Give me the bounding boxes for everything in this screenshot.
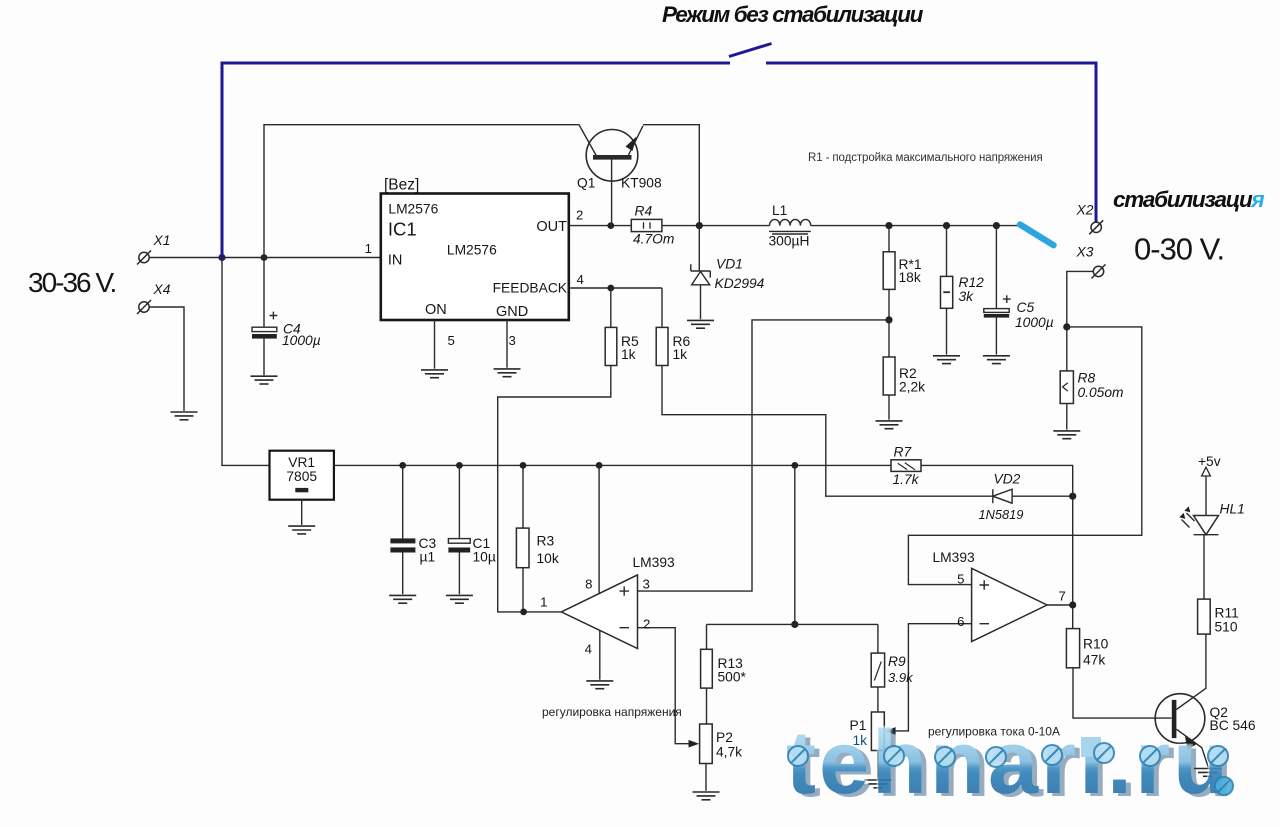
op-amp U1B LM393 (right) <box>972 568 1047 641</box>
wire: IC1 pin3 GND to ground <box>506 320 508 368</box>
wire: blue bypass line from input node up and across to X2 <box>222 44 1096 257</box>
watermark tehnari.ru <box>786 713 1236 816</box>
ground (X4) <box>171 412 198 420</box>
label VD2 <box>979 472 1024 523</box>
resistor R11 <box>1198 535 1211 634</box>
label IC1 contents <box>384 177 568 321</box>
diode VD1 (zener to ground) <box>691 226 711 320</box>
node: R12 top <box>943 222 950 229</box>
svg-text:4.7Om: 4.7Om <box>633 232 674 247</box>
ground (C1) <box>446 595 473 603</box>
svg-text:5: 5 <box>448 333 455 348</box>
label VR1 <box>286 455 317 484</box>
label R6 <box>673 334 691 362</box>
svg-text:2: 2 <box>576 208 583 223</box>
svg-text:300µH: 300µH <box>769 234 810 249</box>
label left op-amp pins <box>540 577 650 657</box>
svg-text:8: 8 <box>585 577 592 592</box>
svg-text:4: 4 <box>577 272 584 287</box>
ground (C3) <box>389 595 416 603</box>
wire: pin4 to ground <box>599 630 601 680</box>
svg-text:регулировка напряжения: регулировка напряжения <box>542 705 682 719</box>
wire: IC1 pin5 ON to ground <box>434 320 436 369</box>
svg-text:Режим без стабилизации: Режим без стабилизации <box>662 2 924 27</box>
resistor R6 <box>656 288 668 366</box>
svg-text:FEEDBACK: FEEDBACK <box>493 281 568 296</box>
terminal X2 <box>1089 220 1103 234</box>
resistor R12 <box>941 226 953 355</box>
ground (VD1) <box>687 320 714 328</box>
node: R8 top junction <box>1063 323 1070 330</box>
op-amp U1A LM393 (left, mirrored) <box>561 575 637 649</box>
svg-text:0-30 V.: 0-30 V. <box>1134 232 1224 267</box>
wire: R6 bottom to VD2 line <box>662 366 993 497</box>
svg-text:500*: 500* <box>718 670 747 685</box>
svg-text:X1: X1 <box>153 233 171 248</box>
label R10 <box>1083 637 1109 668</box>
svg-text:R4: R4 <box>635 204 653 219</box>
wire: sense node to right comparator pin5 <box>908 327 1141 585</box>
svg-text:R12: R12 <box>959 275 985 290</box>
svg-text:VD1: VD1 <box>716 257 743 272</box>
ground (P1) <box>864 780 891 788</box>
svg-text:3: 3 <box>509 333 516 348</box>
op-amp IC1 LM2576 box <box>381 194 569 321</box>
wire: pin6 to P1 wiper <box>895 624 972 731</box>
voltage regulator VR1 7805 <box>270 451 334 525</box>
svg-text:R11: R11 <box>1215 606 1239 621</box>
label P2 <box>716 730 742 760</box>
svg-text:1: 1 <box>365 241 372 256</box>
svg-text:OUT: OUT <box>536 219 567 235</box>
svg-text:KT908: KT908 <box>621 176 662 191</box>
capacitor C1 <box>448 465 470 594</box>
node: R3 top <box>520 462 527 469</box>
svg-text:30-36 V.: 30-36 V. <box>28 267 115 298</box>
label Q2 <box>1210 705 1256 733</box>
node: pin7 output junction <box>1069 601 1076 608</box>
ground (U1A pin4) <box>586 681 613 689</box>
power symbol +5v <box>1202 467 1211 476</box>
ground (Q2 emitter) <box>1194 769 1221 777</box>
arrow: P1 wiper <box>885 727 896 735</box>
resistor R4 <box>631 219 662 231</box>
resistor R2 <box>883 320 895 420</box>
svg-text:5: 5 <box>957 572 964 587</box>
svg-text:R8: R8 <box>1078 371 1096 386</box>
node: junction at x=264 input rail <box>261 254 268 261</box>
svg-text:Q1: Q1 <box>577 176 595 191</box>
ground (R2) <box>876 421 903 429</box>
LED HL1 <box>1179 476 1218 535</box>
ground (P2) <box>693 792 720 800</box>
node: C3 top <box>399 462 406 469</box>
svg-text:R9: R9 <box>888 654 906 669</box>
label P1 <box>850 718 868 748</box>
ground (IC1 ON) <box>421 370 448 378</box>
wire: R4 to L1 <box>662 225 770 227</box>
switch SA (blue blade) <box>729 44 772 57</box>
label R13 <box>718 656 747 685</box>
resistor R8 <box>1060 327 1073 430</box>
svg-text:1: 1 <box>540 595 547 610</box>
svg-text:VD2: VD2 <box>994 472 1021 487</box>
wire: supply tap down to pots rail <box>794 465 796 624</box>
svg-text:KD2994: KD2994 <box>715 276 765 291</box>
terminal X3 <box>1092 264 1106 278</box>
resistor R7 <box>891 460 921 472</box>
wire: pin8 supply stem <box>598 465 600 593</box>
node: R*1 top <box>885 222 892 229</box>
svg-text:18k: 18k <box>899 270 921 285</box>
svg-text:LM2576: LM2576 <box>388 202 438 217</box>
ground (VR1) <box>288 526 315 534</box>
capacitor C5 <box>984 226 1011 355</box>
wire: Q1 collector to input rail <box>264 125 597 258</box>
label IC1 pin numbers <box>365 208 584 349</box>
svg-text:R3: R3 <box>537 534 555 549</box>
svg-text:GND: GND <box>496 304 528 320</box>
svg-text:LM2576: LM2576 <box>447 243 497 258</box>
potentiometer P1 <box>871 712 884 779</box>
svg-text:10k: 10k <box>537 551 559 566</box>
wire: X3 to current-sense node <box>1067 271 1094 327</box>
wire: L1 to output node (ends before X2) <box>811 225 1018 227</box>
inductor L1 <box>769 219 811 234</box>
svg-text:2,2k: 2,2k <box>899 380 925 395</box>
label right op-amp pins <box>957 572 1066 630</box>
wire: pin2 to P2 wiper <box>638 628 690 744</box>
resistor R13 <box>701 624 713 724</box>
transistor Q1 <box>586 125 699 226</box>
diode VD2 1N5819 <box>993 489 1073 503</box>
label R7 <box>893 445 920 488</box>
arrow: P2 wiper <box>689 740 700 748</box>
svg-text:1.7k: 1.7k <box>893 472 920 487</box>
svg-text:LM393: LM393 <box>933 550 976 565</box>
label R11 <box>1215 606 1239 635</box>
node: C5 top <box>993 222 1000 229</box>
svg-text:HL1: HL1 <box>1220 502 1245 517</box>
resistor R9 <box>871 624 884 712</box>
svg-text:IN: IN <box>388 253 403 269</box>
svg-text:6: 6 <box>957 614 964 629</box>
svg-text:R1 - подстройка максимального: R1 - подстройка максимального напряжения <box>808 152 1043 164</box>
potentiometer P2 <box>700 724 713 791</box>
ground (R8) <box>1053 431 1080 439</box>
wire: pin7 output to feed line <box>1047 604 1073 606</box>
label C4 <box>282 322 321 349</box>
svg-text:1N5819: 1N5819 <box>979 507 1024 522</box>
wire: input rail down to VR1 input <box>222 258 270 466</box>
svg-text:3: 3 <box>643 577 650 592</box>
svg-text:LM393: LM393 <box>633 555 676 570</box>
label L1 <box>769 203 810 249</box>
node: VD1 top junction <box>696 222 703 229</box>
svg-text:4: 4 <box>585 642 592 657</box>
capacitor C3 <box>390 465 415 594</box>
svg-text:ON: ON <box>425 302 447 318</box>
node: R*1/R2 divider tap <box>885 316 892 323</box>
resistor R*1 <box>883 226 895 320</box>
wire: X4 to ground <box>149 307 184 411</box>
svg-text:R7: R7 <box>894 445 913 460</box>
svg-text:3k: 3k <box>959 289 975 304</box>
node: R5 top on feedback wire <box>607 285 614 292</box>
svg-text:C5: C5 <box>1017 300 1035 315</box>
label C1 <box>473 536 496 565</box>
svg-text:X3: X3 <box>1076 245 1094 260</box>
node: pots rail junction <box>791 621 798 628</box>
resistor R10 <box>1066 629 1171 719</box>
svg-text:1000µ: 1000µ <box>1015 315 1054 330</box>
terminal X1 <box>137 251 151 265</box>
svg-text:VR1: VR1 <box>288 455 315 470</box>
svg-text:510: 510 <box>1215 620 1238 635</box>
svg-text:стабилизация: стабилизация <box>1113 187 1264 212</box>
capacitor C4 <box>252 258 277 376</box>
resistor R5 <box>605 288 617 366</box>
svg-text:4,7k: 4,7k <box>716 745 742 760</box>
label R4 <box>633 204 674 247</box>
svg-text:7805: 7805 <box>286 469 317 484</box>
wire: IC1 FEEDBACK pin 4 to R6 <box>569 287 662 289</box>
wire: R7 to right-side vertical feed <box>921 465 1073 628</box>
svg-text:2: 2 <box>643 617 650 632</box>
node: C1 top <box>456 462 463 469</box>
node: VD2 cathode junction <box>1069 493 1076 500</box>
node: blue junction at input rail <box>218 254 225 261</box>
svg-text:10µ: 10µ <box>473 550 496 565</box>
svg-text:7: 7 <box>1059 589 1066 604</box>
wire: pots rail R13 to R9 <box>707 623 878 625</box>
svg-text:1000µ: 1000µ <box>282 333 321 348</box>
ground (IC1 GND) <box>494 369 521 377</box>
svg-text:1k: 1k <box>621 347 636 362</box>
resistor R3 <box>516 465 529 612</box>
svg-text:R10: R10 <box>1083 637 1109 652</box>
screws on watermark <box>788 743 1233 795</box>
annotation: cyan marker stroke <box>1020 225 1054 246</box>
node: pots supply tap <box>791 462 798 469</box>
svg-text:[Bez]: [Bez] <box>384 177 419 194</box>
svg-text:0.05om: 0.05om <box>1078 385 1124 400</box>
wire: divider tap to left comparator pin3 <box>638 320 890 591</box>
ground (C5) <box>983 356 1010 364</box>
label R5 <box>621 334 639 362</box>
wire: +5V bus from VR1 to R7 <box>334 464 891 466</box>
wire: X1 to IC1 IN pin <box>149 257 381 259</box>
label R2 <box>899 366 925 395</box>
svg-text:X2: X2 <box>1076 203 1094 218</box>
label R12 <box>959 275 985 304</box>
svg-text:tehnarı.ru: tehnarı.ru <box>786 713 1231 813</box>
node: pin8 supply tap <box>596 462 603 469</box>
transistor Q2 <box>1155 634 1208 767</box>
svg-text:µ1: µ1 <box>420 550 436 565</box>
label VD1 <box>715 257 765 292</box>
svg-text:X4: X4 <box>153 282 171 297</box>
svg-text:IC1: IC1 <box>388 219 417 240</box>
label R*1 <box>899 257 922 285</box>
terminal X4 <box>137 300 151 314</box>
wire: IC1 OUT to R4 <box>569 225 632 227</box>
svg-text:47k: 47k <box>1083 653 1105 668</box>
label R3 <box>537 534 559 567</box>
wire: R5 bottom to left comparator output pin1 <box>498 366 611 612</box>
svg-text:3.9k: 3.9k <box>888 670 914 685</box>
label C3 <box>419 536 437 565</box>
label R9 <box>888 654 914 685</box>
svg-text:L1: L1 <box>772 203 787 218</box>
ground (R12) <box>933 356 960 364</box>
svg-text:P2: P2 <box>716 730 733 745</box>
label C5 <box>1015 300 1054 330</box>
ground (C4) <box>251 376 278 384</box>
node: pin1 output junction <box>520 609 527 616</box>
svg-text:1k: 1k <box>673 347 688 362</box>
label R8 <box>1078 371 1124 401</box>
node: Q1 base on OUT wire <box>607 222 614 229</box>
svg-text:+5v: +5v <box>1198 454 1221 469</box>
